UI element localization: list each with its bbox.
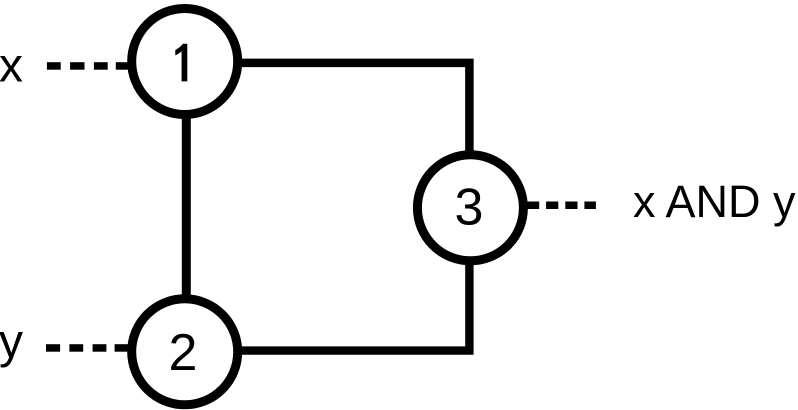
node 2 circle	[132, 299, 238, 405]
dashed input wire y	[46, 344, 129, 352]
svg-text:y: y	[0, 315, 23, 368]
node 1 circle	[132, 9, 238, 115]
dashed input wire x	[47, 62, 130, 69]
svg-text:x AND y: x AND y	[633, 176, 796, 227]
node 3 circle	[417, 155, 523, 261]
wire from node 1 to node 2 (vertical)	[182, 62, 191, 353]
node 1 label	[175, 44, 187, 82]
svg-text:3: 3	[455, 179, 484, 237]
svg-text:x: x	[0, 39, 23, 92]
svg-text:2: 2	[169, 324, 198, 382]
wire from node 2 to node 3 (bottom)	[185, 208, 470, 351]
dashed output wire x AND y	[525, 202, 596, 210]
wire from node 1 to node 3 (top)	[185, 63, 470, 208]
